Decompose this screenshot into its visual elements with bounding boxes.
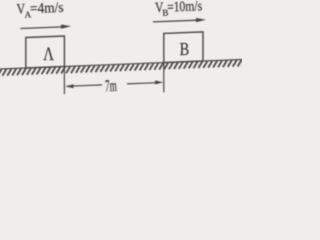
svg-text:B: B — [180, 38, 190, 59]
svg-text:7m: 7m — [105, 76, 118, 95]
svg-text:=4m/s: =4m/s — [30, 0, 64, 17]
svg-text:Λ: Λ — [43, 43, 54, 64]
svg-text:=10m/s: =10m/s — [167, 0, 203, 15]
